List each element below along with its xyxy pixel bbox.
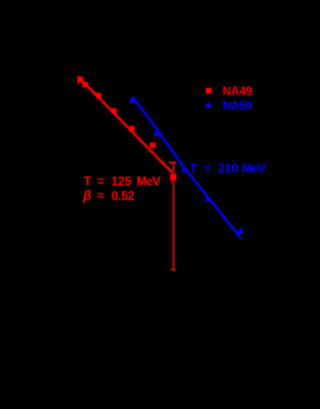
red data point 6 [150, 142, 156, 148]
annotation T = 210 MeV (blue) [190, 161, 267, 175]
svg-text:=: = [97, 175, 104, 189]
svg-text:NA50: NA50 [223, 98, 253, 112]
svg-text:=: = [204, 161, 211, 175]
annotation beta = 0.52 (red) [82, 188, 135, 203]
blue data point 2 [153, 130, 160, 136]
blue data point 4 [204, 195, 211, 201]
error bar on last red point [172, 163, 174, 270]
legend marker NA49 (red square) [206, 88, 212, 94]
red data point 1 [78, 77, 84, 83]
svg-text:β: β [82, 188, 91, 203]
red data point 7 [170, 174, 176, 181]
svg-text:0.52: 0.52 [111, 189, 134, 203]
svg-text:T: T [84, 175, 92, 189]
error bar bottom cap [171, 268, 176, 270]
blue data point 5 [237, 227, 244, 233]
error bar on first red point [77, 76, 79, 85]
blue fit line (T = 210 MeV) [132, 97, 241, 239]
red data point 4 [111, 108, 117, 114]
red fit line (T = 125 MeV) [80, 79, 172, 173]
legend marker NA50 (blue triangle) [205, 102, 213, 108]
annotation T = 125 MeV (red) [84, 175, 162, 189]
svg-text:210: 210 [218, 161, 238, 175]
svg-text:=: = [97, 189, 104, 203]
red data point 2 [82, 82, 88, 88]
red data point 3 [96, 93, 102, 99]
svg-text:125: 125 [111, 175, 131, 189]
error bar top cap [169, 162, 176, 164]
svg-text:MeV: MeV [242, 161, 267, 175]
svg-text:MeV: MeV [137, 175, 162, 189]
svg-text:NA49: NA49 [223, 84, 253, 98]
svg-text:T: T [190, 161, 198, 175]
red data point 5 [129, 126, 135, 132]
blue data point 1 [129, 97, 136, 103]
blue data point 3 [181, 166, 188, 172]
